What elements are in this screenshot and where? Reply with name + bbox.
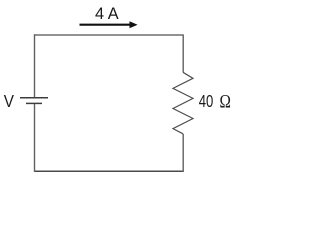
- battery V : short plate (negative): [26, 102, 42, 104]
- wire: left edge lower (from battery bottom plate): [34, 103, 36, 171]
- resistor R (zigzag) 40 ohm: [173, 72, 193, 134]
- wire: left edge upper (to battery top plate): [34, 34, 36, 98]
- battery V : long plate (positive): [20, 97, 48, 99]
- svg-text:40: 40: [199, 91, 214, 111]
- wire: right edge upper (to resistor): [182, 34, 184, 72]
- wire: right edge lower (from resistor): [182, 134, 184, 172]
- current arrow 4 A (shaft): [80, 24, 132, 26]
- current arrow 4 A (head): [130, 21, 138, 28]
- wire: bottom edge of loop: [34, 170, 184, 172]
- svg-text:V: V: [4, 91, 15, 111]
- wire: top edge of loop: [34, 34, 183, 36]
- svg-text:Ω: Ω: [220, 93, 231, 113]
- svg-text:4 A: 4 A: [95, 5, 119, 23]
